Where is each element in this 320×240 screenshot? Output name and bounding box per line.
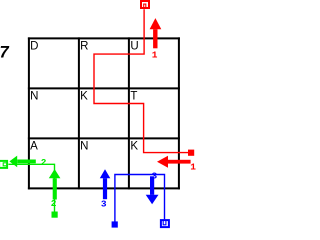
green wire path xyxy=(8,164,54,211)
blue up arrow xyxy=(100,169,111,199)
green left arrow xyxy=(9,156,35,168)
svg-text:N: N xyxy=(30,91,38,103)
red wire path xyxy=(94,9,189,152)
red end terminal (filled square, right) xyxy=(188,150,194,156)
green up arrow xyxy=(49,169,61,200)
svg-text:3: 3 xyxy=(152,170,158,181)
svg-text:2: 2 xyxy=(41,157,47,168)
red left arrow (exit right side) xyxy=(157,156,191,168)
svg-text:R: R xyxy=(80,41,88,53)
svg-text:D: D xyxy=(30,41,38,53)
blue end terminal (hollow square, bottom right) xyxy=(161,220,169,227)
blue wire path xyxy=(115,175,165,222)
svg-text:2: 2 xyxy=(51,198,57,209)
svg-text:7: 7 xyxy=(0,44,10,62)
svg-text:1: 1 xyxy=(190,162,196,173)
svg-text:A: A xyxy=(30,141,38,153)
svg-text:N: N xyxy=(80,141,88,153)
svg-text:T: T xyxy=(130,91,137,103)
red start terminal (hollow square, top) xyxy=(141,1,149,8)
svg-text:1: 1 xyxy=(152,49,158,60)
green start terminal (hollow square, left edge) xyxy=(0,161,7,168)
cell letters xyxy=(30,41,139,153)
svg-text:K: K xyxy=(80,91,88,103)
svg-text:3: 3 xyxy=(101,198,107,209)
blue down arrow xyxy=(146,176,159,204)
red up arrow (exit top of cell U) xyxy=(150,18,162,48)
svg-text:K: K xyxy=(130,141,138,153)
blue start terminal (filled square, bottom) xyxy=(112,221,118,227)
green end terminal (filled square, bottom) xyxy=(52,212,58,218)
svg-text:U: U xyxy=(130,41,138,53)
